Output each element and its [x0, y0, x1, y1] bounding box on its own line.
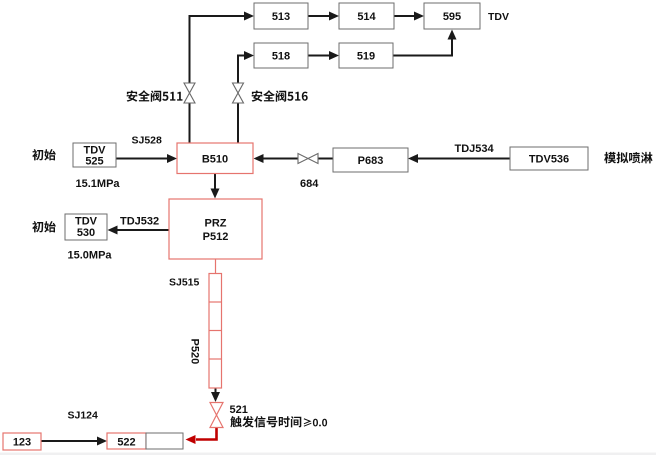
- label 521: [230, 404, 248, 416]
- label 513 text: [272, 11, 290, 23]
- label 522 text: [117, 437, 135, 449]
- svg-text:525: 525: [85, 156, 103, 168]
- label TDV525 line1: [84, 145, 107, 157]
- wire 123 to 522: [41, 437, 107, 446]
- svg-text:P683: P683: [358, 155, 384, 167]
- box 595: [424, 3, 480, 29]
- valve 684: [298, 154, 318, 164]
- svg-text:521: 521: [230, 404, 248, 416]
- svg-text:15.0MPa: 15.0MPa: [68, 250, 113, 262]
- label 初始 upper: [32, 149, 56, 160]
- svg-text:P520: P520: [189, 339, 201, 365]
- wire 518 to 519: [308, 51, 339, 60]
- label 安全阀516: [252, 90, 308, 101]
- svg-text:15.1MPa: 15.1MPa: [76, 178, 121, 190]
- wire TDV536 to P683: [408, 154, 510, 163]
- label TDV: [488, 11, 509, 23]
- box TDV530: [65, 214, 107, 240]
- label SJ124: [68, 410, 99, 422]
- label 519 text: [357, 51, 375, 63]
- label 模拟喷淋: [604, 152, 652, 164]
- wire pipe P520 down to valve 521: [211, 388, 220, 402]
- wire 519 elbow up to 595: [393, 30, 457, 56]
- label 初始 lower: [32, 221, 56, 232]
- svg-text:TDV536: TDV536: [529, 154, 569, 166]
- label SJ515: [169, 277, 200, 289]
- label SJ528: [132, 135, 163, 147]
- svg-text:SJ515: SJ515: [169, 277, 200, 289]
- svg-text:518: 518: [272, 51, 290, 63]
- vessel PRZ P512: [169, 199, 262, 259]
- wire PRZ bottom to pipe P520: [215, 259, 217, 274]
- label TDV536 text: [529, 154, 569, 166]
- svg-text:123: 123: [13, 437, 31, 449]
- svg-text:TDV: TDV: [75, 216, 98, 228]
- wire valve516 up-elbow to box 518: [238, 51, 254, 83]
- valve 511: [184, 83, 195, 103]
- svg-text:519: 519: [357, 51, 375, 63]
- wire B510 down to PRZ: [211, 174, 220, 199]
- label B510 text: [202, 154, 228, 166]
- svg-text:TDJ532: TDJ532: [120, 216, 159, 228]
- wire PRZ to TDV530: [108, 226, 170, 235]
- box P683: [333, 148, 408, 172]
- label TDJ532: [120, 216, 159, 228]
- svg-text:514: 514: [357, 11, 376, 23]
- svg-text:522: 522: [117, 437, 135, 449]
- label 518 text: [272, 51, 290, 63]
- label TDV530 line1: [75, 216, 98, 228]
- label PRZ line2: [203, 231, 229, 243]
- label 123 text: [13, 437, 31, 449]
- svg-text:595: 595: [443, 11, 461, 23]
- svg-text:TDV: TDV: [488, 11, 509, 23]
- svg-text:B510: B510: [202, 154, 228, 166]
- label TDV525 line2: [85, 156, 103, 168]
- svg-text:SJ124: SJ124: [68, 410, 99, 422]
- label 安全阀511: [127, 90, 183, 101]
- wire P683 to valve684 to B510: [254, 154, 334, 163]
- box 518: [254, 43, 308, 68]
- svg-text:PRZ: PRZ: [205, 218, 227, 230]
- valve 516: [233, 83, 244, 103]
- box 522 right cell: [146, 433, 183, 449]
- box 123: [3, 433, 41, 450]
- wire valve516 down to B510: [237, 103, 239, 143]
- label 15.0MPa: [68, 250, 113, 262]
- wire 513 to 514: [308, 12, 339, 21]
- box TDV525: [73, 143, 116, 167]
- svg-text:P512: P512: [203, 231, 229, 243]
- label 15.1MPa: [76, 178, 121, 190]
- wire valve511 up-elbow to box 513: [190, 12, 255, 84]
- wire valve521 red elbow to box 522: [186, 428, 217, 445]
- box TDV536: [510, 147, 588, 170]
- box 513: [254, 3, 308, 29]
- wire valve511 down to B510: [189, 103, 191, 143]
- label 684: [300, 178, 319, 190]
- svg-text:TDJ534: TDJ534: [455, 143, 495, 155]
- label 595 text: [443, 11, 461, 23]
- bottom gray strip: [0, 453, 656, 455]
- label P683 text: [358, 155, 384, 167]
- svg-text:SJ528: SJ528: [132, 135, 163, 147]
- label 514 text: [357, 11, 376, 23]
- label ≥0.0: [304, 418, 327, 426]
- svg-text:513: 513: [272, 11, 290, 23]
- wire TDV525 to B510: [116, 154, 177, 163]
- pipe P520 segmented: [209, 274, 222, 389]
- svg-text:684: 684: [300, 178, 319, 190]
- svg-text:530: 530: [77, 227, 95, 239]
- box 522 left cell: [107, 433, 146, 449]
- vessel B510: [177, 143, 253, 174]
- label PRZ line1: [205, 218, 227, 230]
- box 514: [339, 3, 394, 29]
- label TDV530 line2: [77, 227, 95, 239]
- label P520 rotated: [189, 339, 201, 365]
- label TDJ534: [455, 143, 495, 155]
- label 触发信号时间: [230, 416, 301, 427]
- wire 514 to 595: [394, 12, 424, 21]
- box 519: [339, 43, 393, 68]
- valve 521: [210, 403, 223, 428]
